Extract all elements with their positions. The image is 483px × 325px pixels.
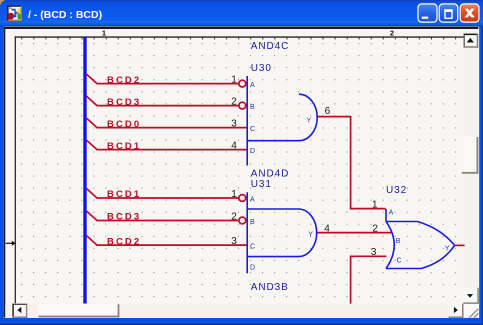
horizontal scrollbar right button — [449, 304, 464, 319]
wire BCD1 (gate1 pin4) — [97, 149, 248, 151]
vertical scrollbar track — [464, 30, 479, 304]
svg-text:U32: U32 — [386, 185, 407, 196]
svg-text:B: B — [250, 104, 255, 111]
svg-text:4: 4 — [231, 140, 237, 151]
svg-text:BCD2: BCD2 — [107, 236, 141, 247]
wire U31 output to U32 pin B — [317, 232, 392, 234]
title bar — [0, 0, 483, 26]
svg-text:AND4C: AND4C — [251, 41, 289, 52]
svg-text:1: 1 — [231, 189, 237, 200]
and-gate U31 arc — [299, 209, 317, 257]
wire BCD3 (gate2 pin2) — [97, 220, 239, 222]
wire BCD1 (gate1 pin4) bus entry — [87, 140, 98, 150]
svg-text:A: A — [389, 210, 394, 217]
svg-text:BCD2: BCD2 — [107, 75, 141, 86]
or-gate U32 bottom curve — [421, 245, 455, 268]
page border inner left line — [15, 36, 16, 303]
svg-text:D: D — [250, 148, 255, 155]
close button — [460, 4, 479, 22]
svg-text:1: 1 — [231, 74, 237, 85]
svg-text:BCD1: BCD1 — [107, 189, 141, 200]
or-gate U32 top curve — [418, 222, 455, 246]
wire BCD1 (gate2 pin1) — [97, 197, 239, 199]
wire BCD0 (gate1 pin3) bus entry — [87, 118, 98, 128]
wire U32 pin C — [351, 256, 387, 303]
svg-text:BCD0: BCD0 — [107, 119, 141, 130]
svg-text:A: A — [250, 197, 255, 204]
wire BCD3 (gate1 pin2) — [97, 105, 239, 107]
gate pin name letters — [250, 82, 450, 271]
and-gate U30 bottom line — [247, 140, 299, 142]
svg-text:Y: Y — [307, 118, 312, 125]
and-gate U30 left edge — [246, 76, 248, 166]
svg-text:6: 6 — [325, 106, 331, 117]
and-gate U31 top line — [247, 208, 299, 210]
svg-text:BCD3: BCD3 — [107, 212, 141, 223]
horizontal scrollbar track — [5, 304, 463, 318]
svg-text:A: A — [250, 82, 255, 89]
wire BCD2 (gate2 pin3) — [97, 244, 248, 246]
vertical scrollbar down button — [463, 288, 479, 304]
and-gate U31 left edge — [246, 192, 248, 273]
svg-text:B: B — [396, 238, 401, 245]
op gate U30 AND4C body — [247, 76, 317, 166]
unconnected pin circle U31 pin2 — [239, 217, 246, 224]
wire BCD2 (gate1 pin1) bus entry — [87, 74, 98, 84]
svg-text:AND3B: AND3B — [251, 282, 289, 293]
window outer dark edges — [0, 324, 483, 325]
unconnected pin circle U31 pin1 — [239, 195, 246, 202]
component texts — [251, 41, 407, 293]
maximize button — [439, 4, 458, 22]
svg-text:Y: Y — [445, 245, 450, 252]
svg-text:3: 3 — [371, 247, 377, 258]
svg-text:1: 1 — [102, 28, 106, 37]
wire BCD0 (gate1 pin3) — [97, 127, 248, 129]
wire BCD1 (gate2 pin1) bus entry — [87, 189, 98, 199]
or-gate U32 bottom line — [386, 268, 421, 270]
svg-text:1: 1 — [372, 200, 378, 211]
client 3D border top — [4, 27, 479, 29]
page border inner top line — [15, 36, 464, 37]
workspace corner notch — [0, 0, 5, 5]
svg-text:C: C — [397, 257, 402, 264]
net labels — [107, 75, 141, 248]
horizontal scrollbar thumb — [38, 304, 120, 317]
svg-text:4: 4 — [324, 224, 330, 235]
zone arrow marker — [6, 241, 16, 246]
svg-text:BCD3: BCD3 — [107, 97, 141, 108]
svg-text:C: C — [250, 244, 255, 251]
or-gate U32 left arc — [386, 222, 394, 269]
grid dots — [16, 38, 464, 303]
wire BCD2 (gate1 pin1) — [97, 83, 239, 85]
unconnected pin circle U30 pin1 — [239, 80, 246, 87]
svg-text:Y: Y — [308, 232, 313, 239]
svg-text:3: 3 — [231, 118, 237, 129]
wire BCD3 (gate2 pin2) bus entry — [87, 211, 98, 221]
op gate U31 AND4D body — [247, 192, 317, 273]
unconnected pin circle U30 pin2 — [239, 102, 246, 109]
wire U32 output stub — [455, 244, 465, 246]
or-gate U32 top line — [386, 221, 418, 223]
bus (vertical blue) — [83, 37, 86, 303]
and-gate U30 arc — [299, 94, 317, 141]
horizontal scrollbar left button — [12, 304, 27, 318]
client 3D border left — [4, 27, 6, 318]
svg-text:3: 3 — [231, 236, 237, 247]
scrollbar corner resize grip — [464, 304, 479, 318]
svg-text:2: 2 — [390, 28, 394, 37]
wire BCD3 (gate1 pin2) bus entry — [87, 96, 98, 106]
svg-text:D: D — [250, 264, 255, 271]
or-gate U32 pin A stub — [385, 209, 387, 222]
svg-text:U30: U30 — [251, 63, 272, 74]
vertical scrollbar thumb — [462, 137, 479, 174]
pin numbers — [231, 74, 378, 257]
svg-text:C: C — [250, 126, 255, 133]
svg-text:/ - (BCD : BCD): / - (BCD : BCD) — [28, 9, 102, 21]
ruler ticks — [21, 38, 456, 40]
and-gate U31 bottom line — [247, 256, 299, 258]
svg-text:U31: U31 — [251, 179, 272, 190]
title bar document icon — [7, 6, 22, 21]
wire BCD2 (gate2 pin3) bus entry — [87, 236, 98, 246]
svg-text:2: 2 — [231, 211, 237, 222]
or-gate U32 body — [386, 209, 455, 269]
vertical scrollbar up button — [464, 34, 479, 48]
svg-text:BCD1: BCD1 — [107, 141, 141, 152]
svg-text:2: 2 — [372, 224, 378, 235]
minimize button — [418, 4, 437, 22]
wire U30 output to U32 pin A — [317, 117, 386, 209]
svg-text:2: 2 — [231, 96, 237, 107]
svg-text:B: B — [250, 219, 255, 226]
